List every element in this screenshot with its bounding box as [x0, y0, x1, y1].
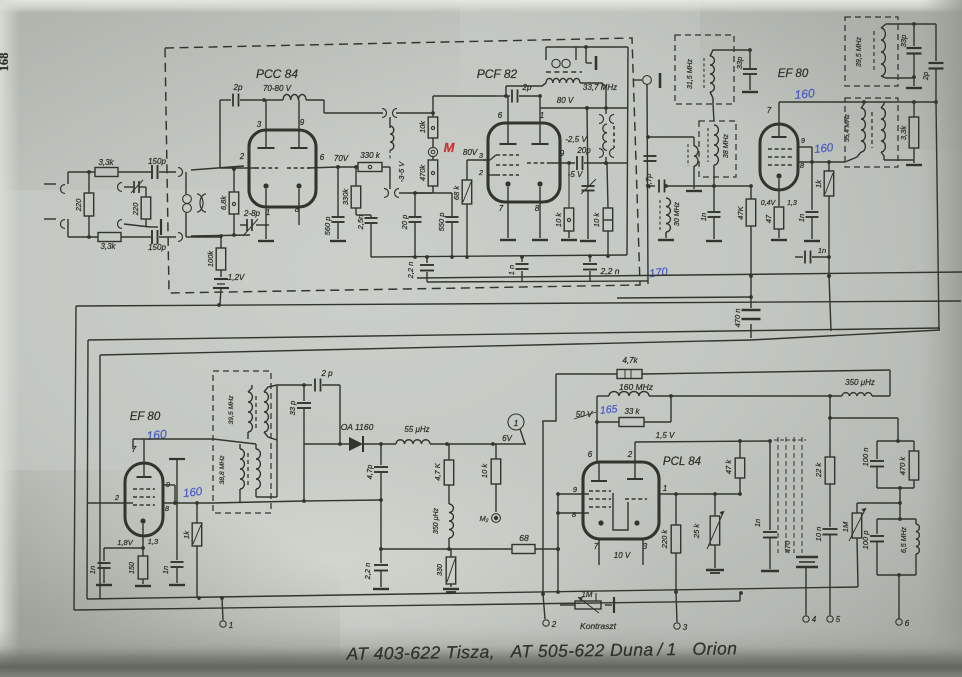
- capacitor 1n bypass left: [88, 548, 111, 583]
- svg-text:2: 2: [239, 152, 245, 161]
- wire pin6: [338, 166, 358, 168]
- EF80-2 grid stem: [125, 502, 133, 504]
- label 70-80V: [263, 84, 292, 93]
- svg-text:39,5 MHz: 39,5 MHz: [228, 395, 235, 425]
- ground under 25k: [706, 570, 724, 573]
- wire 330k to link: [382, 167, 390, 189]
- label PCL 84: [663, 456, 701, 468]
- svg-text:4,7p: 4,7p: [365, 465, 374, 480]
- dashed box 38MHz: [699, 121, 736, 177]
- wire primary down: [693, 166, 695, 189]
- svg-text:470 n: 470 n: [733, 309, 742, 328]
- EF80-1 cathode: [776, 173, 781, 206]
- wire cathode node: [104, 546, 145, 550]
- wire pin6 drop: [596, 396, 598, 462]
- wire: [159, 236, 176, 238]
- wire to 38MHz primary: [648, 137, 694, 146]
- ground under PCC84 pin1: [258, 240, 274, 242]
- svg-text:33p: 33p: [735, 57, 744, 70]
- svg-text:6: 6: [588, 450, 593, 459]
- resistor 68: [512, 533, 560, 554]
- EF80-1 pin9 wire: [798, 147, 812, 162]
- PCC84 left plate: [258, 100, 275, 148]
- tube PCL84 envelope: [583, 462, 659, 539]
- label 1,8V: [117, 538, 133, 547]
- svg-text:-2,5 V: -2,5 V: [565, 135, 587, 144]
- label 80V grid: [463, 148, 478, 157]
- grid feed wire: [779, 100, 938, 104]
- wire 38,8 bottoms: [240, 489, 277, 502]
- coil 350uH sound: [842, 378, 890, 396]
- terminal 1: [220, 598, 233, 630]
- dashed box 35,4MHz: [845, 98, 898, 167]
- svg-text:10 k: 10 k: [592, 212, 601, 227]
- EF80-2 pin 8 label: [165, 504, 170, 513]
- frame outer bottom: [74, 594, 740, 610]
- svg-text:7: 7: [499, 204, 504, 213]
- PCL84 pin3 stem: [642, 539, 644, 565]
- wire antenna bottom: [68, 235, 98, 239]
- svg-text:10 n: 10 n: [814, 527, 823, 542]
- PCF82 pin 1 label: [540, 111, 544, 120]
- wire to terminal 6: [898, 575, 900, 619]
- PCL84 internal links: [613, 493, 628, 530]
- svg-text:1n: 1n: [88, 566, 97, 574]
- svg-text:6,8k: 6,8k: [219, 195, 228, 210]
- capacitor 1n IF: [699, 186, 721, 239]
- ground under 560p: [330, 240, 346, 242]
- link coil: [390, 117, 406, 182]
- svg-text:1,3: 1,3: [787, 200, 797, 207]
- wire 39,5b bottoms: [248, 432, 277, 440]
- PCF82 pin 2 label: [478, 168, 484, 177]
- wire feedback to grid: [433, 95, 496, 97]
- capacitor on line: [644, 156, 657, 161]
- capacitor 20p left: [400, 191, 422, 257]
- capacitor 2,2n left: [406, 255, 434, 282]
- PCL84 pin7 stem: [598, 539, 600, 565]
- PCL84 pin 2 label: [627, 450, 633, 459]
- svg-text:1: 1: [229, 621, 233, 630]
- coil 38MHz primary small: [688, 144, 698, 166]
- svg-text:2p: 2p: [522, 83, 532, 92]
- svg-text:3,3k: 3,3k: [100, 242, 116, 251]
- svg-text:39,5 MHz: 39,5 MHz: [856, 37, 863, 67]
- label 1,5V: [656, 431, 675, 440]
- svg-text:1n: 1n: [753, 519, 762, 527]
- wire 31,5 top: [710, 48, 752, 56]
- resistor 10k meter: [480, 444, 501, 512]
- svg-text:350 μHz: 350 μHz: [845, 378, 875, 387]
- svg-text:560 p: 560 p: [323, 217, 332, 236]
- capacitor 150p lower: [148, 230, 166, 252]
- wire grid3: [451, 192, 453, 194]
- PCC84 pin 2 label: [239, 152, 245, 161]
- label EF 80 (IF2): [130, 411, 161, 423]
- antenna jack J1: [44, 172, 68, 194]
- svg-text:33p: 33p: [899, 35, 908, 48]
- coil 30MHz: [660, 184, 681, 238]
- PCF82 triode grid stem: [549, 162, 575, 164]
- trimmer cap input: [131, 180, 146, 197]
- link connector 2 upper: [599, 108, 614, 124]
- PCF82 pentode plate: [500, 96, 517, 144]
- svg-text:330 k: 330 k: [360, 151, 381, 160]
- svg-text:10 k: 10 k: [554, 212, 563, 227]
- resistor 47: [764, 207, 784, 238]
- svg-text:160: 160: [794, 86, 816, 102]
- svg-text:150p: 150p: [148, 243, 166, 252]
- PCL84 triode grid: [625, 498, 647, 500]
- PCC84 pin 6 label: [320, 153, 325, 162]
- coil 350uH: [433, 504, 453, 551]
- wire ratio top rail: [877, 440, 914, 442]
- svg-text:31,5 MHz: 31,5 MHz: [687, 59, 694, 89]
- frame middle top: [88, 328, 940, 340]
- diode OA1160: [304, 422, 396, 452]
- pot 1M sound: [841, 503, 900, 587]
- wire down: [898, 488, 902, 521]
- jack middle lower: [118, 220, 151, 229]
- resistor 4,7K: [433, 444, 454, 504]
- svg-text:6V: 6V: [502, 434, 512, 443]
- resistor 3,3k upper: [95, 158, 118, 177]
- svg-text:4,7p: 4,7p: [644, 174, 653, 189]
- page number 168: [0, 53, 11, 72]
- ground under 1n pcl: [761, 570, 779, 572]
- PCF82 grid3 stem: [488, 174, 496, 176]
- svg-text:20p: 20p: [576, 146, 591, 155]
- capacitor 2p feedback: [220, 83, 262, 107]
- trap 6,5MHz top rail: [877, 518, 916, 520]
- svg-text:10k: 10k: [418, 120, 427, 133]
- PCC84 pin 8 label: [295, 205, 300, 214]
- svg-text:0,4V: 0,4V: [761, 200, 777, 207]
- svg-text:1 n: 1 n: [507, 265, 516, 275]
- node on frame: [217, 303, 221, 307]
- resistor 1k lower: [182, 503, 202, 598]
- bus wire mid: [371, 255, 627, 259]
- wire sound branch: [830, 418, 900, 443]
- PCC84 pin 3 label: [257, 120, 262, 129]
- blue handwriting 160 d: [183, 486, 204, 500]
- label 33,7 MHz: [583, 83, 617, 92]
- wire plate to link: [306, 100, 383, 113]
- svg-text:550 p: 550 p: [437, 213, 446, 232]
- B+ feed vertical: [543, 374, 556, 594]
- coupling dashes: [546, 71, 582, 73]
- ground: [443, 589, 459, 592]
- label 50V: [574, 410, 596, 419]
- grounds under PCF82: [500, 239, 548, 241]
- resistor 3,3k lower: [98, 233, 121, 252]
- ground: [96, 584, 112, 586]
- EF80-2 pin 7 label: [132, 445, 137, 454]
- coil 39,5MHz b primary: [228, 392, 256, 432]
- wire test point down: [647, 84, 648, 284]
- svg-text:-3-5 V: -3-5 V: [397, 161, 406, 182]
- PCF82 grid1 stem: [483, 155, 496, 160]
- shield dashed lines: [774, 437, 806, 553]
- svg-text:470: 470: [783, 540, 792, 553]
- wire sound takeoff: [671, 394, 842, 398]
- svg-text:1M: 1M: [581, 590, 592, 599]
- wire video: [381, 548, 512, 550]
- svg-text:160: 160: [183, 486, 204, 500]
- capacitor 33p: [735, 50, 757, 90]
- PCF82 cathodes: [505, 181, 542, 186]
- PCC84 right plate: [291, 100, 308, 148]
- resistor 10k triode: [592, 163, 613, 258]
- IF transformer 33,7MHz secondary: [506, 78, 606, 108]
- resistor 470k sound: [898, 441, 919, 488]
- svg-text:5: 5: [836, 615, 841, 624]
- svg-text:330: 330: [437, 564, 444, 576]
- resistor 47K IF: [714, 184, 756, 298]
- wire balun lower to cathode net: [191, 233, 250, 238]
- svg-text:10 k: 10 k: [480, 463, 489, 478]
- resistor 220k: [660, 494, 681, 592]
- svg-text:100 p: 100 p: [861, 531, 870, 550]
- node plate supply: [262, 98, 266, 102]
- svg-text:160: 160: [146, 427, 168, 443]
- wire grid out: [213, 499, 306, 503]
- svg-text:160 MHz: 160 MHz: [619, 382, 654, 392]
- PCL84 pin 9 label: [573, 485, 578, 494]
- svg-text:47: 47: [764, 214, 773, 223]
- link connector lower: [384, 189, 432, 198]
- coil 70-80V peaking: [264, 94, 306, 100]
- svg-text:470 k: 470 k: [898, 456, 907, 476]
- svg-text:10 V: 10 V: [614, 551, 631, 560]
- resistor 4,7k top: [556, 356, 642, 379]
- trap bottom rail: [877, 573, 916, 577]
- svg-text:9: 9: [560, 149, 565, 158]
- capacitor 100p: [861, 519, 884, 575]
- resistor 3,3k right: [899, 102, 919, 163]
- label 0,4V: [761, 200, 777, 207]
- EF80-2 pin8 wire: [163, 501, 213, 505]
- capacitor 2,2n video: [363, 549, 388, 587]
- trimmer cap osc: [581, 106, 596, 239]
- wire bus to dashed edge: [589, 255, 591, 257]
- PCC84 grid1 stem: [244, 167, 257, 169]
- capacitor 4,7p: [644, 174, 714, 193]
- wire B+ rail: [642, 370, 890, 396]
- tube EF80-1 envelope: [760, 124, 798, 190]
- resistor 330k horizontal: [358, 151, 382, 172]
- label EF 80 (IF1): [778, 68, 809, 80]
- label 1,3: [787, 200, 797, 207]
- frame inner top: [100, 330, 940, 355]
- wire 470k down: [415, 186, 452, 193]
- wire 38MHz bottom: [712, 165, 716, 188]
- ground: [169, 584, 185, 586]
- label 10V: [614, 551, 631, 560]
- resistor 100k: [186, 237, 226, 270]
- coil 38,8MHz secondary: [256, 449, 260, 489]
- link connector 2 lower: [599, 149, 614, 165]
- wire 39,5 bottom lead: [881, 76, 914, 78]
- svg-text:470k: 470k: [418, 164, 427, 182]
- svg-text:EF 80: EF 80: [130, 411, 161, 423]
- resistor 330k vertical: [341, 165, 361, 208]
- PCL84 pin 6 label: [588, 450, 593, 459]
- wire top left vertical: [220, 100, 244, 168]
- svg-text:70V: 70V: [334, 154, 349, 163]
- wire ratio bottom rail: [877, 486, 914, 490]
- resistor 6,8k: [219, 169, 239, 235]
- EF80-1 pin8 wire: [798, 160, 845, 164]
- ground bus lower: [87, 587, 858, 600]
- wire: [121, 236, 151, 238]
- PCC84 pin 9 label: [300, 118, 305, 127]
- ground under 33p top right: [906, 78, 922, 88]
- label -5V: [568, 170, 583, 179]
- svg-text:33 k: 33 k: [624, 407, 640, 416]
- coil 35,4MHz secondary: [872, 108, 885, 152]
- resistor 470k: [418, 160, 438, 186]
- EF80-2 pin9 wire: [163, 485, 175, 503]
- wire 35,4 secondary leads: [881, 102, 884, 160]
- svg-text:8: 8: [535, 204, 540, 213]
- svg-text:PCF 82: PCF 82: [477, 67, 518, 81]
- svg-text:2: 2: [551, 620, 557, 629]
- svg-text:150: 150: [129, 562, 136, 574]
- svg-text:2,2 n: 2,2 n: [600, 266, 620, 276]
- wire 39,5b top leads: [248, 385, 277, 392]
- label 160MHz: [619, 382, 654, 392]
- wire feedback long vertical: [627, 47, 628, 255]
- PCF82 pin 7 label: [499, 204, 504, 213]
- wire 80V anode: [540, 96, 628, 110]
- ground under 47: [771, 239, 787, 241]
- blue handwriting 160 c: [146, 427, 168, 443]
- svg-text:2: 2: [114, 493, 120, 502]
- dashed box 39,5/38,8MHz: [213, 371, 271, 513]
- PCF82 pin 9 label: [560, 149, 565, 158]
- IF transformer 33,7MHz primary: [546, 45, 628, 70]
- capacitor 2p lower: [304, 369, 342, 446]
- svg-text:2 p: 2 p: [320, 369, 333, 378]
- capacitor 33p top right: [899, 24, 922, 79]
- capacitor 150p upper: [148, 157, 166, 179]
- coil 35,4MHz primary: [844, 108, 865, 152]
- EF80-1 grids: [768, 149, 792, 165]
- terminal 3: [674, 592, 688, 632]
- PCF82 triode grid: [527, 162, 549, 164]
- capacitor 2,2n right: [583, 254, 620, 281]
- capacitor 1n pcl: [753, 441, 777, 569]
- PCF82 cathode stems: [508, 187, 540, 238]
- wire cathode pin1: [264, 191, 269, 239]
- tube EF80-2 envelope: [125, 463, 163, 536]
- terminal 6: [896, 619, 910, 628]
- svg-text:-5 V: -5 V: [568, 170, 583, 179]
- svg-text:9: 9: [300, 118, 305, 127]
- resistor 33k: [595, 396, 671, 427]
- coil 38MHz: [708, 125, 730, 165]
- PCF82 pin 3 label: [479, 151, 484, 160]
- svg-text:38,8 MHz: 38,8 MHz: [219, 455, 226, 485]
- terminal 2: [543, 594, 557, 629]
- svg-text:1n: 1n: [797, 214, 806, 222]
- svg-text:3: 3: [257, 120, 262, 129]
- frame outer left: [74, 306, 76, 610]
- resistor 1k: [814, 162, 834, 331]
- ground: [373, 588, 389, 590]
- svg-text:3: 3: [683, 623, 688, 632]
- jack middle upper: [118, 183, 134, 192]
- wire 1,5V rail: [635, 439, 772, 443]
- svg-text:6: 6: [498, 111, 503, 120]
- wire 31,5 bottom: [710, 92, 714, 121]
- link connector upper: [382, 109, 397, 118]
- svg-text:168: 168: [0, 53, 11, 72]
- wire 35,4 primary top: [861, 100, 866, 108]
- bus wire lower: [427, 281, 648, 282]
- svg-text:1,8V: 1,8V: [117, 538, 133, 547]
- EF80-2 plate: [137, 439, 152, 477]
- wire right feedback vertical: [936, 102, 939, 330]
- svg-text:22 k: 22 k: [814, 462, 823, 478]
- svg-text:M: M: [444, 140, 456, 155]
- svg-text:3,3k: 3,3k: [899, 125, 908, 140]
- test point terminal: [633, 73, 660, 88]
- svg-text:220 k: 220 k: [660, 529, 669, 550]
- resistor 68k: [452, 160, 489, 259]
- ground under 1n IF: [706, 240, 722, 242]
- screen cap bar: [169, 459, 185, 560]
- coil 39,5MHz b secondary: [264, 392, 268, 432]
- link coil 2: [603, 124, 614, 150]
- dashed box 31,5MHz: [675, 35, 734, 104]
- wire: [118, 171, 151, 173]
- svg-text:220: 220: [74, 198, 83, 212]
- ground under trimmer: [580, 240, 596, 242]
- wire 470n feed: [617, 295, 753, 299]
- svg-text:25 k: 25 k: [692, 523, 701, 539]
- indicator M jack: [428, 138, 437, 160]
- coil 31,5MHz: [687, 56, 714, 92]
- svg-text:2,2 n: 2,2 n: [406, 262, 415, 280]
- EF80-2 pin 2 label: [114, 493, 120, 502]
- svg-text:OA 1160: OA 1160: [341, 422, 374, 432]
- svg-text:160: 160: [814, 142, 835, 156]
- PCF82 pin 8 label: [535, 204, 540, 213]
- svg-text:1,3: 1,3: [148, 537, 159, 546]
- meter circle 1: [502, 414, 525, 444]
- coil 160MHz: [597, 392, 673, 398]
- svg-text:PCL 84: PCL 84: [663, 456, 701, 468]
- ground under 10k: [561, 239, 577, 241]
- svg-text:1k: 1k: [182, 530, 191, 539]
- terminal 4: [803, 615, 817, 624]
- svg-text:330k: 330k: [341, 188, 350, 206]
- svg-text:1k: 1k: [814, 179, 823, 188]
- blue handwriting 165: [599, 403, 618, 417]
- terminal 5: [827, 615, 841, 624]
- svg-text:4,7 K: 4,7 K: [433, 462, 442, 481]
- label Kontraszt: [580, 621, 617, 631]
- red handwritten M: [444, 140, 456, 155]
- svg-text:38 MHz: 38 MHz: [723, 133, 730, 158]
- trimmer 2-8p: [240, 209, 264, 236]
- capacitor 4,7p detector: [365, 442, 388, 502]
- svg-text:33 p: 33 p: [288, 401, 297, 416]
- coil 38,8MHz primary: [219, 449, 248, 489]
- node 30MHz feed: [646, 135, 650, 139]
